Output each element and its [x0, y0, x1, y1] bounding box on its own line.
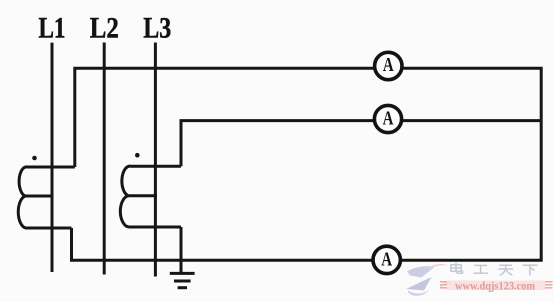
- transformer T1 winding: [18, 167, 75, 228]
- wire CT2 bottom lead to ground: [180, 227, 183, 272]
- transformer T2 winding: [120, 166, 181, 227]
- svg-text:www.dqjs123.com: www.dqjs123.com: [455, 281, 535, 293]
- svg-text:A: A: [383, 107, 394, 129]
- svg-text:L1: L1: [39, 13, 66, 45]
- wire middle: CT2 top lead and middle wire to right vertical: [181, 121, 541, 167]
- line L1: [51, 43, 54, 272]
- line L3: [154, 43, 157, 277]
- transformer T1 polarity dot: [32, 156, 37, 161]
- svg-text:A: A: [383, 54, 394, 76]
- ammeter PA3: [373, 246, 400, 273]
- svg-text:L2: L2: [90, 13, 119, 45]
- watermark url band: [440, 281, 553, 293]
- watermark logo: [406, 264, 452, 296]
- ammeter PA1: [375, 52, 402, 79]
- main circuit strokes: [52, 43, 541, 277]
- svg-text:L3: L3: [143, 13, 171, 45]
- watermark char 天: [498, 265, 513, 275]
- svg-text:A: A: [381, 248, 392, 270]
- wire secondary loop: CT1 top lead, top wire, right vertical, bottom wire, CT1 bottom lead: [72, 68, 542, 260]
- watermark char 电: [451, 263, 463, 274]
- line L2: [103, 43, 106, 275]
- ammeter PA2: [374, 105, 401, 132]
- watermark char 下: [523, 265, 538, 275]
- ground: [170, 273, 195, 287]
- transformer T2 polarity dot: [135, 153, 140, 158]
- watermark char 工: [473, 265, 488, 273]
